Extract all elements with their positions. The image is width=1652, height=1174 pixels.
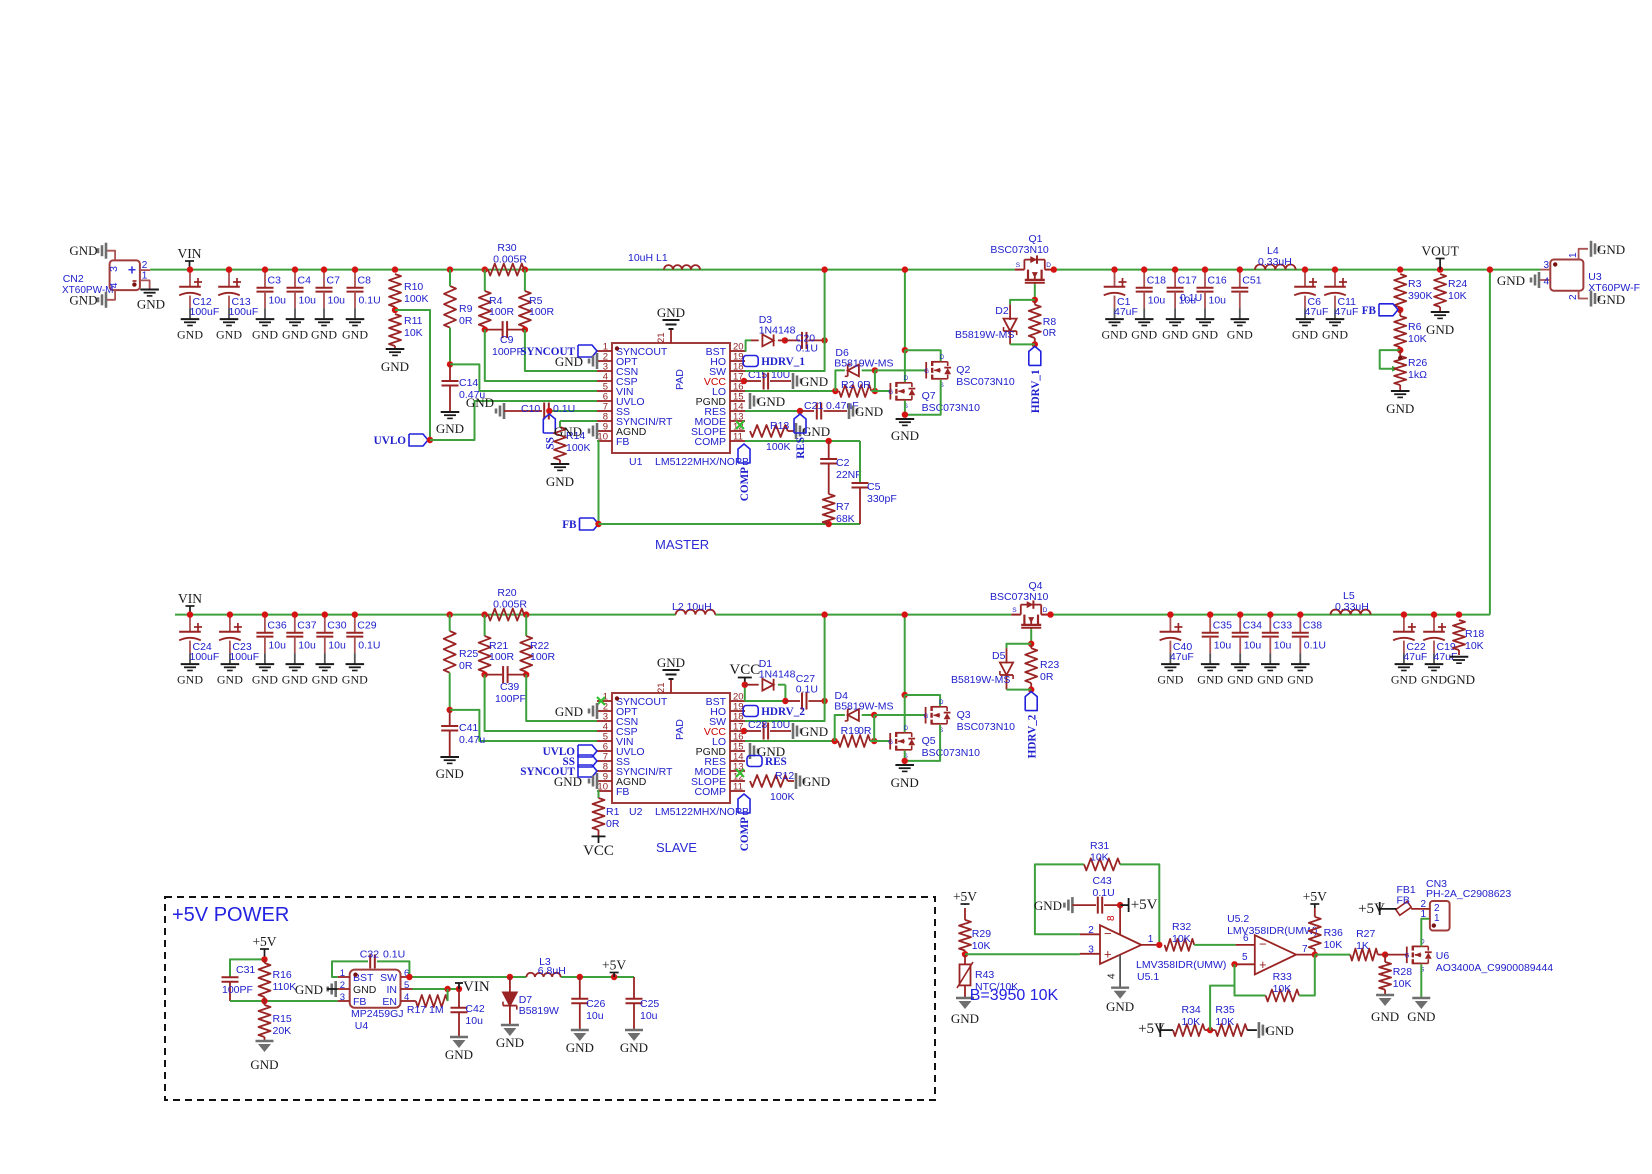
resistor R28 xyxy=(1379,955,1412,995)
diode D7 xyxy=(503,977,559,1025)
svg-text:R27: R27 xyxy=(1356,928,1375,940)
resistor R17 xyxy=(407,989,448,1016)
capacitor C17 xyxy=(1162,266,1197,341)
svg-text:G: G xyxy=(888,390,893,396)
svg-text:BSC073N10: BSC073N10 xyxy=(922,402,981,414)
svg-text:2: 2 xyxy=(1568,294,1579,300)
svg-text:10K: 10K xyxy=(1273,983,1292,995)
svg-text:4: 4 xyxy=(1107,973,1118,979)
thermistor R43 NTC xyxy=(957,954,1018,998)
svg-text:−: − xyxy=(1104,926,1112,941)
svg-text:GND: GND xyxy=(1131,327,1157,341)
svg-text:GND: GND xyxy=(800,724,828,739)
svg-text:COMP: COMP xyxy=(695,786,727,798)
svg-text:C36: C36 xyxy=(267,620,286,632)
capacitor C41 xyxy=(441,710,485,757)
capacitor C35 xyxy=(1197,611,1232,686)
svg-text:GND: GND xyxy=(1391,672,1417,686)
svg-text:10u: 10u xyxy=(465,1015,483,1027)
svg-text:GND: GND xyxy=(1287,672,1313,686)
wire FB run xyxy=(599,521,861,527)
svg-text:VOUT: VOUT xyxy=(1421,244,1459,259)
svg-text:G: G xyxy=(888,740,893,746)
svg-text:100PF: 100PF xyxy=(492,346,523,358)
capacitor C19 xyxy=(1421,611,1457,686)
ground C26 xyxy=(566,1030,594,1055)
svg-text:4: 4 xyxy=(404,992,409,1003)
svg-text:GND: GND xyxy=(1192,327,1218,341)
svg-text:GND: GND xyxy=(554,424,582,439)
resistor R31 feedback xyxy=(1035,840,1159,945)
capacitor C13 xyxy=(216,266,258,341)
text MASTER xyxy=(655,537,709,552)
net label UVLO xyxy=(374,434,434,447)
svg-text:10K: 10K xyxy=(972,940,991,952)
svg-text:GND: GND xyxy=(620,1040,648,1055)
ground U4 pin2 xyxy=(295,981,338,997)
resistor R21 xyxy=(479,615,515,678)
svg-text:GND: GND xyxy=(1227,327,1253,341)
wire UVLO to U1 pin6 xyxy=(430,401,597,440)
svg-text:G: G xyxy=(924,714,929,720)
svg-text:GND: GND xyxy=(1292,327,1318,341)
svg-text:+5V: +5V xyxy=(1131,897,1158,913)
svg-text:R13: R13 xyxy=(770,420,789,432)
inductor L1 xyxy=(628,252,700,270)
svg-text:C51: C51 xyxy=(1242,275,1261,287)
svg-text:0.1U: 0.1U xyxy=(553,403,575,415)
svg-text:R30: R30 xyxy=(497,242,516,254)
svg-text:C17: C17 xyxy=(1178,275,1197,287)
svg-text:0.47u: 0.47u xyxy=(459,734,485,746)
svg-text:3: 3 xyxy=(108,266,120,272)
capacitor C9 xyxy=(485,321,525,358)
svg-text:R7: R7 xyxy=(836,501,850,513)
wire U2 BST riser xyxy=(742,682,786,702)
svg-text:GND: GND xyxy=(1371,1009,1399,1024)
svg-text:AO3400A_C9900089444: AO3400A_C9900089444 xyxy=(1436,962,1554,974)
svg-text:GND: GND xyxy=(312,672,338,686)
net label FB master xyxy=(562,518,601,531)
capacitor C3 xyxy=(252,266,286,341)
inductor L5 xyxy=(1331,590,1371,615)
capacitor C21 xyxy=(745,400,859,420)
wire R4 to U1 pin4 xyxy=(485,330,597,381)
transistor Q2 BSC073N10 xyxy=(924,355,1015,389)
svg-text:D: D xyxy=(1043,607,1048,614)
capacitor C40 xyxy=(1157,611,1193,686)
resistor R8 xyxy=(1029,300,1057,348)
resistor R33 xyxy=(1235,955,1315,1002)
svg-text:1: 1 xyxy=(1434,913,1440,924)
svg-text:C10: C10 xyxy=(521,403,540,415)
capacitor C22 xyxy=(1391,611,1427,686)
svg-text:0R: 0R xyxy=(459,315,473,327)
wire Q5 source xyxy=(902,751,908,765)
svg-text:LM5122MHX/NOPB: LM5122MHX/NOPB xyxy=(655,456,749,468)
ground U1 pin15 PGND xyxy=(750,393,785,409)
svg-text:GND: GND xyxy=(381,359,409,374)
svg-text:10K: 10K xyxy=(1182,1016,1201,1028)
svg-text:GND: GND xyxy=(657,655,685,670)
svg-text:D5: D5 xyxy=(992,650,1006,662)
svg-text:U6: U6 xyxy=(1436,950,1450,962)
capacitor C26 xyxy=(571,977,605,1030)
svg-text:R3: R3 xyxy=(1408,278,1422,290)
svg-text:B=3950 10K: B=3950 10K xyxy=(970,987,1059,1004)
svg-text:GND: GND xyxy=(1197,672,1223,686)
transistor Q5 BSC073N10 xyxy=(888,726,980,760)
power flag +5V R36 xyxy=(1303,889,1327,908)
svg-text:10K: 10K xyxy=(1215,1016,1234,1028)
svg-text:U2: U2 xyxy=(629,806,643,818)
capacitor C12 xyxy=(177,266,219,341)
svg-text:47uF: 47uF xyxy=(1403,651,1427,663)
resistor R32 xyxy=(1156,921,1235,951)
svg-text:C7: C7 xyxy=(327,275,341,287)
svg-text:100K: 100K xyxy=(404,293,429,305)
svg-text:10u: 10u xyxy=(328,639,346,651)
svg-text:GND: GND xyxy=(250,1057,278,1072)
capacitor C11 xyxy=(1322,266,1358,341)
svg-text:VIN: VIN xyxy=(178,591,202,606)
wire SW node master xyxy=(745,266,828,371)
no-connect U2 MODE xyxy=(736,769,744,777)
svg-text:R20: R20 xyxy=(497,587,516,599)
svg-text:D2: D2 xyxy=(995,305,1009,317)
resistor R3 xyxy=(1394,266,1432,313)
connector CN3 PH-2A xyxy=(1411,878,1511,931)
svg-text:C38: C38 xyxy=(1303,620,1322,632)
wire master VIN rail xyxy=(150,269,1540,271)
connector CN2 XT60PW-M xyxy=(62,251,150,300)
svg-text:+: + xyxy=(1104,947,1112,962)
svg-text:100K: 100K xyxy=(566,442,591,454)
svg-text:GND: GND xyxy=(555,704,583,719)
ground R18 xyxy=(1447,657,1475,687)
svg-text:EN: EN xyxy=(382,996,397,1008)
svg-text:GND: GND xyxy=(657,305,685,320)
wire U5.2 out to R27 xyxy=(1315,954,1350,956)
wire R5 to U1 pin3 xyxy=(525,330,597,371)
svg-text:GND: GND xyxy=(1447,672,1475,687)
svg-text:GND: GND xyxy=(177,672,203,686)
svg-text:HDRV_1: HDRV_1 xyxy=(761,356,805,368)
resistor R36 xyxy=(1309,908,1343,958)
power flag +5V R29 xyxy=(953,889,977,905)
wire Q3 gate xyxy=(874,714,925,716)
ground U1 pin2 OPT xyxy=(555,353,597,369)
svg-text:FB: FB xyxy=(1362,305,1377,317)
no-connect U2 pin1 xyxy=(597,697,605,705)
net label UVLO slave xyxy=(543,745,597,758)
svg-text:LMV358IDR(UMW): LMV358IDR(UMW) xyxy=(1227,925,1317,937)
resistor R34 xyxy=(1138,1004,1213,1037)
capacitor C20 xyxy=(785,332,828,355)
svg-text:10u: 10u xyxy=(1274,639,1292,651)
svg-text:SW: SW xyxy=(380,972,397,984)
ground U2 pin2 OPT xyxy=(555,703,597,719)
svg-text:C9: C9 xyxy=(500,334,514,346)
svg-text:0.005R: 0.005R xyxy=(493,254,527,266)
power flag VIN slave xyxy=(178,591,202,615)
svg-text:100R: 100R xyxy=(489,306,515,318)
wire Q2 gate xyxy=(875,369,926,371)
ground CN2 pin1 xyxy=(137,290,165,312)
svg-text:D: D xyxy=(940,355,945,361)
svg-text:GND: GND xyxy=(252,672,278,686)
power flag +5V right xyxy=(602,958,626,978)
wire R21 to U2 pin4 xyxy=(485,675,597,731)
svg-text:U5.1: U5.1 xyxy=(1137,971,1159,983)
net label COMP slave xyxy=(738,794,751,851)
svg-text:10u: 10u xyxy=(1148,294,1166,306)
svg-text:C32: C32 xyxy=(360,949,379,961)
ground U5.1 pin4 xyxy=(1106,988,1134,1014)
wire VOUT to slave rail xyxy=(1487,266,1493,614)
svg-text:GND: GND xyxy=(295,982,323,997)
svg-text:BSC073N10: BSC073N10 xyxy=(922,747,981,759)
svg-text:VCC: VCC xyxy=(583,843,614,859)
ground U2 pin15 PGND xyxy=(750,743,785,759)
capacitor C32 bootstrap xyxy=(332,949,413,981)
svg-text:6.8uH: 6.8uH xyxy=(538,965,566,977)
svg-text:R31: R31 xyxy=(1090,840,1109,852)
capacitor C4 xyxy=(282,266,316,341)
svg-text:0R: 0R xyxy=(1043,327,1057,339)
op-amp U5.2 LMV358IDR xyxy=(1227,913,1317,974)
svg-text:10K: 10K xyxy=(1448,290,1467,302)
ground U2 pin9 AGND xyxy=(554,773,597,789)
svg-text:R17: R17 xyxy=(407,1004,426,1016)
wire LO row master xyxy=(745,388,839,394)
svg-text:MASTER: MASTER xyxy=(655,537,709,552)
wire U1 pin10 FB down xyxy=(597,441,599,524)
ground C42 xyxy=(445,1037,473,1062)
ground U1 pin9 AGND xyxy=(554,423,597,439)
svg-text:10K: 10K xyxy=(1408,333,1427,345)
svg-text:1: 1 xyxy=(142,271,148,282)
svg-text:RES: RES xyxy=(795,437,807,459)
svg-text:3: 3 xyxy=(340,992,345,1003)
svg-text:100K: 100K xyxy=(770,791,795,803)
wire +5V to C31 top xyxy=(230,956,268,977)
svg-text:+5V: +5V xyxy=(252,934,276,949)
svg-text:10u: 10u xyxy=(640,1010,658,1022)
svg-text:+5V: +5V xyxy=(953,889,977,904)
svg-text:1kΩ: 1kΩ xyxy=(1408,369,1427,381)
svg-text:C4: C4 xyxy=(298,275,312,287)
net label HDRV_1 flag xyxy=(1029,346,1042,413)
svg-text:10u: 10u xyxy=(299,294,317,306)
wire LO row slave xyxy=(745,738,838,744)
svg-text:GND: GND xyxy=(1162,327,1188,341)
svg-text:D: D xyxy=(939,700,944,706)
svg-text:VIN: VIN xyxy=(178,246,202,261)
resistor R9 xyxy=(444,266,473,367)
svg-text:+: + xyxy=(128,262,136,278)
net label RES master xyxy=(794,414,807,459)
svg-text:Q2: Q2 xyxy=(956,364,970,376)
wire divider to U5.2 pin5 xyxy=(1210,961,1238,1030)
svg-text:4: 4 xyxy=(1543,277,1549,288)
wire R25 node to U2 pin5 xyxy=(450,710,597,741)
svg-text:10u: 10u xyxy=(586,1010,604,1022)
svg-text:UVLO: UVLO xyxy=(374,435,407,447)
IC U4 MP2459GJ xyxy=(338,968,413,1032)
svg-text:R1: R1 xyxy=(606,806,620,818)
svg-text:C3: C3 xyxy=(268,275,282,287)
capacitor C28 xyxy=(741,719,791,740)
ground R15 xyxy=(250,1041,278,1072)
ground D7 xyxy=(496,1025,524,1050)
svg-text:D: D xyxy=(904,726,909,732)
svg-text:CN2: CN2 xyxy=(63,273,84,285)
text B=3950 10K xyxy=(970,987,1059,1004)
svg-text:47uF: 47uF xyxy=(1335,306,1359,318)
resistor R30 shunt xyxy=(482,242,529,276)
svg-text:5: 5 xyxy=(404,980,409,991)
svg-text:GND: GND xyxy=(1266,1023,1294,1038)
svg-text:GND: GND xyxy=(137,297,165,312)
svg-text:GND: GND xyxy=(436,766,464,781)
svg-text:1: 1 xyxy=(1568,252,1579,258)
svg-text:R36: R36 xyxy=(1324,927,1343,939)
svg-text:C43: C43 xyxy=(1093,875,1112,887)
svg-text:0R: 0R xyxy=(858,725,872,737)
svg-text:GND: GND xyxy=(800,374,828,389)
svg-text:FB: FB xyxy=(562,519,577,531)
svg-text:+5V: +5V xyxy=(1303,889,1327,904)
svg-text:GND: GND xyxy=(1497,273,1525,288)
svg-text:GND: GND xyxy=(1426,322,1454,337)
svg-text:BSC073N10: BSC073N10 xyxy=(990,591,1049,603)
capacitor C5 xyxy=(852,441,897,524)
svg-text:C37: C37 xyxy=(297,620,316,632)
capacitor C43 xyxy=(1034,875,1123,914)
ground R13 xyxy=(796,423,830,439)
svg-text:B5819W-MS: B5819W-MS xyxy=(955,329,1014,341)
potentiometer R26 1k xyxy=(1380,350,1428,391)
net label SYNCOUT slave xyxy=(520,765,597,778)
capacitor C36 xyxy=(252,611,287,686)
svg-text:C8: C8 xyxy=(358,275,372,287)
svg-text:2: 2 xyxy=(340,980,345,991)
svg-text:GND: GND xyxy=(1227,672,1253,686)
capacitor C38 xyxy=(1287,611,1326,686)
svg-text:U5.2: U5.2 xyxy=(1227,913,1249,925)
svg-text:0.33uH: 0.33uH xyxy=(1335,601,1369,613)
svg-text:C2: C2 xyxy=(836,457,850,469)
diode D1 xyxy=(745,658,796,704)
svg-text:0.1U: 0.1U xyxy=(796,343,818,355)
wire Q2 source down xyxy=(905,380,941,415)
svg-text:FB: FB xyxy=(616,436,629,448)
svg-text:GND: GND xyxy=(353,984,377,996)
net label HDRV_2 pin19 xyxy=(743,706,805,719)
svg-text:R11: R11 xyxy=(404,315,423,327)
svg-text:10u: 10u xyxy=(268,639,286,651)
svg-text:GND: GND xyxy=(891,428,919,443)
ground C41 xyxy=(436,757,464,781)
capacitor C16 xyxy=(1192,266,1227,341)
capacitor C7 xyxy=(311,266,345,341)
svg-text:1M: 1M xyxy=(429,1004,444,1016)
ground R14 xyxy=(546,464,574,489)
net label SS master xyxy=(543,414,556,449)
resistor R24 xyxy=(1434,266,1467,312)
svg-text:GND: GND xyxy=(282,327,308,341)
resistor R2 xyxy=(839,379,878,397)
resistor R15 xyxy=(259,1001,292,1041)
svg-text:2: 2 xyxy=(1088,925,1094,936)
svg-text:GND: GND xyxy=(546,474,574,489)
resistor R25 xyxy=(444,611,479,713)
svg-text:U4: U4 xyxy=(355,1020,369,1032)
svg-text:C26: C26 xyxy=(586,998,605,1010)
svg-text:B5819W-MS: B5819W-MS xyxy=(834,701,893,713)
capacitor C37 xyxy=(282,611,317,686)
svg-text:100uF: 100uF xyxy=(229,306,259,318)
wire U4 IN row xyxy=(413,986,463,992)
svg-text:C29: C29 xyxy=(357,620,376,632)
svg-text:IN: IN xyxy=(387,984,398,996)
svg-text:FB: FB xyxy=(616,786,629,798)
svg-text:S: S xyxy=(1016,262,1021,269)
svg-text:10u: 10u xyxy=(1244,639,1262,651)
capacitor C8 xyxy=(342,266,381,341)
svg-text:R23: R23 xyxy=(1040,659,1059,671)
svg-text:GND: GND xyxy=(282,672,308,686)
svg-text:MP2459GJ: MP2459GJ xyxy=(351,1008,404,1020)
text +5V POWER title xyxy=(172,904,289,926)
svg-text:22NF: 22NF xyxy=(836,469,862,481)
ground R12 xyxy=(796,773,830,789)
svg-text:R9: R9 xyxy=(459,303,473,315)
svg-text:GND: GND xyxy=(445,1047,473,1062)
wire U1 BST riser xyxy=(745,340,751,351)
svg-text:68K: 68K xyxy=(836,513,855,525)
svg-text:GND: GND xyxy=(69,293,97,308)
svg-text:C41: C41 xyxy=(459,722,478,734)
ground R26 xyxy=(1386,391,1414,416)
wire Q3 source down xyxy=(905,725,940,761)
net label HDRV_2 flag xyxy=(1025,692,1038,759)
svg-text:PAD: PAD xyxy=(674,369,686,390)
svg-text:10U: 10U xyxy=(771,719,790,731)
svg-text:3: 3 xyxy=(1543,260,1549,271)
svg-text:47uF: 47uF xyxy=(1170,651,1194,663)
power flag +5V left xyxy=(252,934,276,959)
svg-text:HDRV_1: HDRV_1 xyxy=(1030,369,1042,413)
svg-text:B5819W-MS: B5819W-MS xyxy=(951,674,1010,686)
svg-text:GND: GND xyxy=(1106,999,1134,1014)
power flag VIN master xyxy=(178,246,202,270)
resistor R7 xyxy=(823,494,855,525)
svg-text:1: 1 xyxy=(340,968,345,979)
svg-text:GND: GND xyxy=(566,1040,594,1055)
svg-text:R2 0R: R2 0R xyxy=(841,379,871,391)
svg-text:Q5: Q5 xyxy=(922,735,936,747)
svg-text:C25: C25 xyxy=(640,998,659,1010)
svg-text:20K: 20K xyxy=(273,1025,292,1037)
net label SYNCOUT U1 pin1 xyxy=(520,345,597,358)
ground Q5 Q3 source xyxy=(891,765,919,790)
capacitor C2 xyxy=(820,441,861,494)
dashed box +5V POWER xyxy=(165,897,935,1100)
svg-text:GND: GND xyxy=(891,775,919,790)
resistor R22 xyxy=(520,615,555,678)
